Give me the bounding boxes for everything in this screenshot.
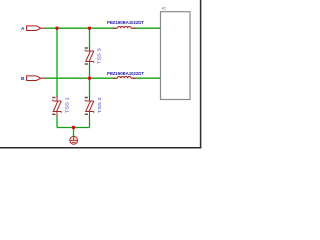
- svg-text:TSS 1: TSS 1: [65, 97, 70, 114]
- svg-text:PBZ160BA1022DT: PBZ160BA1022DT: [107, 71, 144, 76]
- svg-text:TSS 2: TSS 2: [97, 97, 102, 114]
- svg-text:B: B: [21, 76, 25, 82]
- svg-text:A: A: [21, 26, 25, 32]
- svg-text:IC: IC: [162, 5, 166, 10]
- svg-text:PBZ160BA1022DT: PBZ160BA1022DT: [107, 20, 144, 25]
- svg-text:TSS 3: TSS 3: [97, 48, 102, 65]
